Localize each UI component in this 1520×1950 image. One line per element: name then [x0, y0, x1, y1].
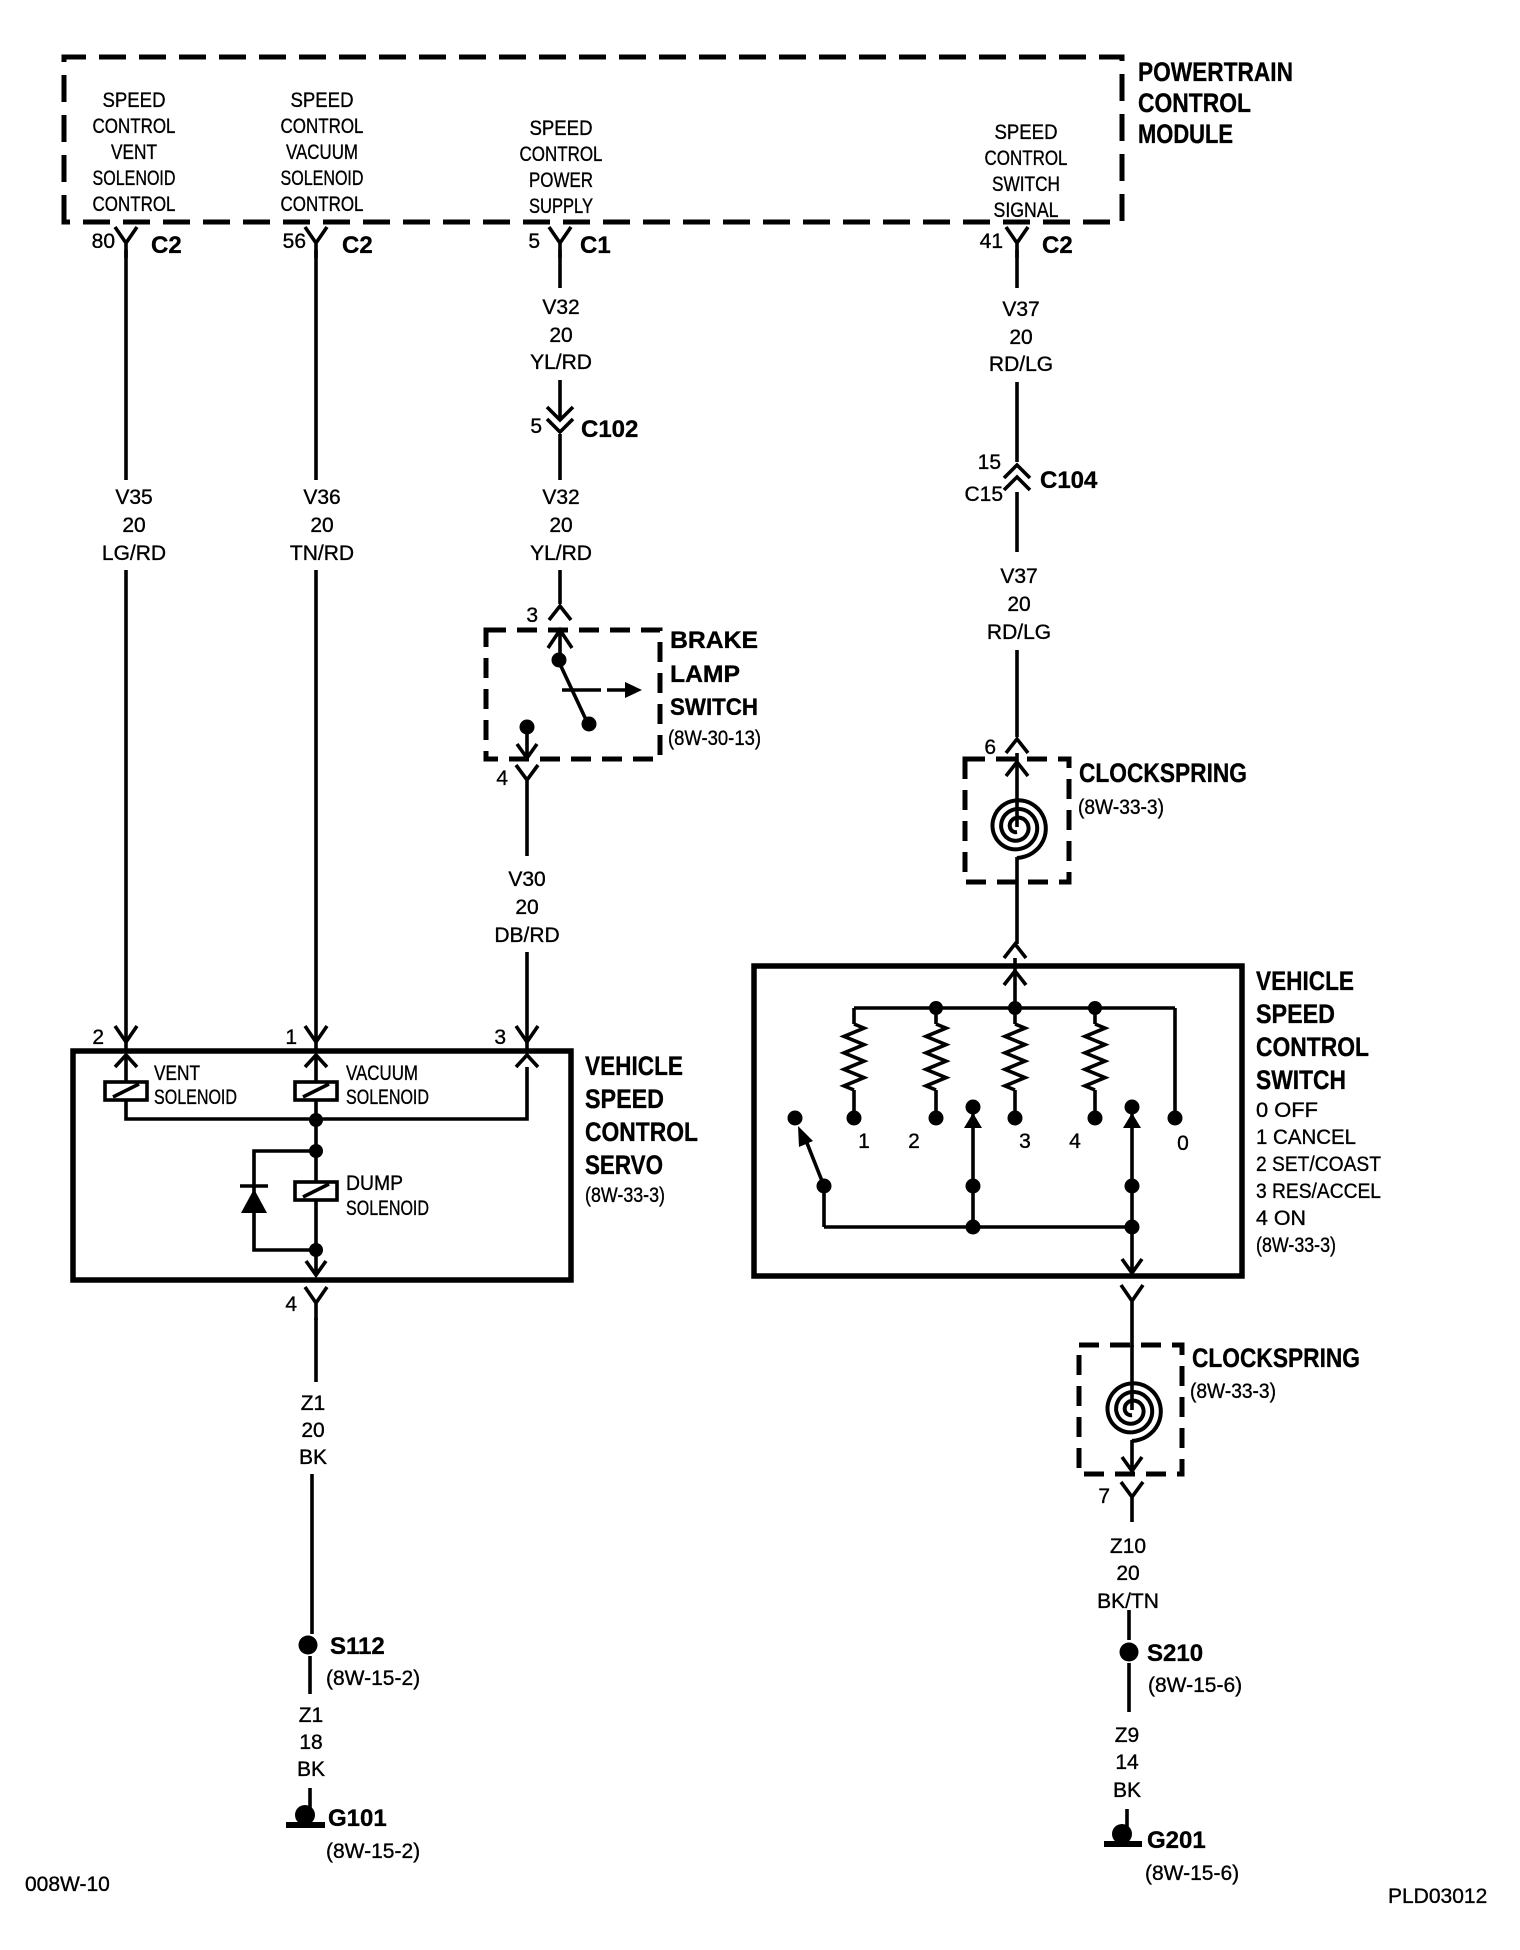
svg-text:(8W-30-13): (8W-30-13) — [668, 727, 761, 750]
wire V30 lower segment to servo pin 3 — [525, 952, 529, 1051]
svg-text:SPEED: SPEED — [585, 1084, 664, 1114]
svg-text:V32: V32 — [542, 486, 579, 509]
svg-text:4: 4 — [496, 767, 508, 790]
svg-text:3 RES/ACCEL: 3 RES/ACCEL — [1256, 1180, 1381, 1203]
switch output arrow — [1122, 1227, 1142, 1273]
svg-text:SUPPLY: SUPPLY — [529, 195, 593, 218]
diode D1 — [240, 1184, 268, 1188]
svg-text:5: 5 — [528, 230, 540, 253]
svg-text:4: 4 — [285, 1293, 297, 1316]
svg-text:VEHICLE: VEHICLE — [1256, 966, 1354, 996]
brake lamp switch output contact dot — [520, 720, 535, 735]
svg-text:41: 41 — [980, 230, 1003, 253]
svg-text:VENT: VENT — [111, 141, 157, 164]
wire label V32 20 YL/RD — [530, 296, 592, 374]
svg-text:DUMP: DUMP — [346, 1172, 403, 1195]
resistor R1 — [852, 1008, 856, 1024]
wire Z10 to splice S210 — [1127, 1610, 1131, 1640]
svg-text:20: 20 — [310, 514, 333, 537]
clockspring coil spiral — [993, 800, 1046, 858]
contact 1 dot — [847, 1111, 862, 1126]
svg-text:MODULE: MODULE — [1138, 119, 1233, 149]
svg-text:DB/RD: DB/RD — [494, 924, 559, 947]
svg-text:20: 20 — [549, 514, 572, 537]
svg-text:VACUUM: VACUUM — [286, 141, 358, 164]
svg-text:Z9: Z9 — [1115, 1724, 1140, 1747]
wire label V37 20 RD/LG second — [987, 565, 1051, 644]
svg-text:LG/RD: LG/RD — [102, 542, 166, 565]
svg-text:15: 15 — [978, 451, 1001, 474]
svg-text:BK: BK — [299, 1446, 327, 1469]
svg-text:20: 20 — [301, 1419, 324, 1442]
svg-text:POWER: POWER — [529, 169, 593, 192]
svg-text:CONTROL: CONTROL — [1256, 1032, 1369, 1062]
svg-text:VEHICLE: VEHICLE — [585, 1051, 683, 1081]
brake lamp switch output arrow to pin 4 — [517, 734, 537, 758]
wire V35 lower segment to servo pin 2 — [124, 570, 128, 1051]
svg-text:SOLENOID: SOLENOID — [281, 167, 364, 190]
wire segment to brake lamp switch pin 3 — [558, 570, 562, 604]
svg-text:20: 20 — [1116, 1562, 1139, 1585]
svg-text:0 OFF: 0 OFF — [1256, 1099, 1318, 1122]
svg-text:CONTROL: CONTROL — [281, 115, 364, 138]
wire V36 lower segment to servo pin 1 — [314, 570, 318, 1051]
wire label Z1 18 BK — [297, 1704, 325, 1781]
svg-text:6: 6 — [984, 736, 996, 759]
junction node bus at resistor 4 — [1088, 1001, 1102, 1015]
clockspring coil wire in — [1015, 753, 1019, 827]
wire V30 upper segment — [525, 800, 529, 856]
vehicle speed control servo box — [73, 1051, 571, 1280]
net label SPEED CONTROL VENT SOLENOID CONTROL — [93, 89, 176, 216]
svg-text:(8W-33-3): (8W-33-3) — [1078, 796, 1164, 819]
svg-text:2 SET/COAST: 2 SET/COAST — [1256, 1153, 1381, 1176]
svg-text:(8W-33-3): (8W-33-3) — [1190, 1380, 1276, 1403]
PCM label POWERTRAIN CONTROL MODULE — [1138, 57, 1293, 149]
switch blade with arrow — [805, 1138, 824, 1186]
wire label V36 20 TN/RD — [290, 486, 354, 565]
contact 0 wire from bus — [1173, 1008, 1177, 1112]
svg-text:CONTROL: CONTROL — [93, 115, 176, 138]
clockspring upper dashed box — [965, 759, 1069, 882]
svg-text:Z1: Z1 — [299, 1704, 324, 1727]
wire V36 upper segment — [314, 250, 318, 480]
svg-text:C2: C2 — [151, 232, 182, 259]
resistor R2 — [934, 1008, 938, 1024]
svg-text:CONTROL: CONTROL — [1138, 88, 1251, 118]
wire label V37 20 RD/LG — [989, 298, 1053, 376]
wire label V35 20 LG/RD — [102, 486, 166, 565]
wire S210 to Z9 label — [1127, 1663, 1131, 1712]
svg-text:Z1: Z1 — [301, 1392, 326, 1415]
svg-text:008W-10: 008W-10 — [25, 1873, 110, 1896]
svg-text:7: 7 — [1098, 1485, 1110, 1508]
wire label Z9 14 BK — [1113, 1724, 1141, 1802]
svg-text:CONTROL: CONTROL — [985, 147, 1068, 170]
svg-text:V30: V30 — [508, 868, 545, 891]
wire segment to C102 — [558, 380, 562, 418]
contact 4 dot — [1088, 1111, 1103, 1126]
svg-text:80: 80 — [92, 230, 115, 253]
vent solenoid coil symbol — [124, 1055, 128, 1082]
svg-text:C2: C2 — [1042, 232, 1073, 259]
net label SPEED CONTROL SWITCH SIGNAL — [985, 121, 1068, 222]
svg-text:(8W-15-6): (8W-15-6) — [1148, 1674, 1242, 1697]
svg-text:4 ON: 4 ON — [1256, 1207, 1306, 1230]
svg-text:56: 56 — [283, 230, 306, 253]
wire Z1 upper segment — [314, 1318, 318, 1382]
wire segment below C102 — [558, 434, 562, 480]
svg-text:C1: C1 — [580, 232, 611, 259]
svg-text:C15: C15 — [964, 483, 1003, 506]
svg-text:CONTROL: CONTROL — [520, 143, 603, 166]
svg-text:20: 20 — [122, 514, 145, 537]
wire label V32 20 YL/RD second — [530, 486, 592, 565]
svg-text:SPEED: SPEED — [530, 117, 593, 140]
blade to bottom bus wire — [822, 1186, 826, 1227]
VEHICLE SPEED CONTROL SERVO label — [585, 1051, 698, 1207]
svg-text:20: 20 — [1009, 326, 1032, 349]
svg-text:(8W-15-2): (8W-15-2) — [326, 1667, 420, 1690]
brake lamp switch blade end dot — [582, 717, 597, 732]
svg-text:BK/TN: BK/TN — [1097, 1590, 1159, 1613]
servo internal bus wire — [126, 1067, 527, 1119]
svg-text:(8W-33-3): (8W-33-3) — [1256, 1234, 1336, 1257]
clockspring coil wire out — [1015, 857, 1019, 944]
ground G201 — [1112, 1824, 1132, 1844]
svg-text:1 CANCEL: 1 CANCEL — [1256, 1126, 1356, 1149]
svg-text:RD/LG: RD/LG — [989, 353, 1053, 376]
wire to ground G101 — [308, 1788, 312, 1812]
switch common contact dot — [788, 1111, 803, 1126]
BRAKE LAMP SWITCH label — [668, 627, 761, 750]
junction node bus at resistor 2 — [929, 1001, 943, 1015]
splice S210 — [1120, 1643, 1139, 1662]
wire V37 segment from C2 pin 41 — [1015, 250, 1019, 288]
svg-text:CLOCKSPRING: CLOCKSPRING — [1079, 758, 1247, 788]
vehicle speed control switch box — [754, 966, 1242, 1276]
momentary contact arrow set/coast — [966, 1100, 981, 1115]
svg-text:C2: C2 — [342, 232, 373, 259]
svg-text:V32: V32 — [542, 296, 579, 319]
svg-text:Z10: Z10 — [1110, 1535, 1146, 1558]
svg-text:BRAKE: BRAKE — [670, 627, 758, 654]
svg-text:SOLENOID: SOLENOID — [154, 1086, 237, 1109]
svg-text:20: 20 — [1007, 593, 1030, 616]
wire label V30 20 DB/RD — [494, 868, 559, 947]
junction node dump branch top — [309, 1144, 323, 1158]
svg-text:S112: S112 — [330, 1633, 385, 1660]
brake lamp switch common contact dot — [552, 653, 567, 668]
svg-text:VACUUM: VACUUM — [346, 1062, 418, 1085]
wire label Z1 20 BK — [299, 1392, 327, 1469]
wire segment to clockspring pin 6 — [1015, 650, 1019, 737]
svg-text:V36: V36 — [303, 486, 340, 509]
clockspring input arrow — [1006, 762, 1028, 776]
wire Z1 to splice S112 — [310, 1474, 314, 1634]
svg-text:RD/LG: RD/LG — [987, 621, 1051, 644]
contact 0 dot — [1168, 1111, 1183, 1126]
brake lamp switch actuation arrow — [607, 688, 627, 692]
vacuum solenoid coil symbol — [314, 1055, 318, 1082]
net label SPEED CONTROL VACUUM SOLENOID CONTROL — [281, 89, 364, 216]
brake lamp switch actuation tick — [562, 688, 601, 692]
svg-text:(8W-15-2): (8W-15-2) — [326, 1840, 420, 1863]
svg-text:VENT: VENT — [154, 1062, 200, 1085]
svg-text:SIGNAL: SIGNAL — [994, 199, 1059, 222]
svg-text:SPEED: SPEED — [291, 89, 354, 112]
blade pivot dot — [817, 1179, 832, 1194]
svg-text:CLOCKSPRING: CLOCKSPRING — [1192, 1343, 1360, 1373]
svg-text:5: 5 — [530, 415, 542, 438]
svg-text:3: 3 — [526, 604, 538, 627]
resistor R4 — [1093, 1008, 1097, 1024]
svg-text:SWITCH: SWITCH — [670, 694, 758, 721]
wire to ground G201 — [1125, 1809, 1129, 1830]
switch top bus wire — [854, 1006, 1175, 1010]
switch bottom bus wire — [824, 1225, 1132, 1229]
svg-text:(8W-33-3): (8W-33-3) — [585, 1184, 665, 1207]
junction node on bus — [309, 1113, 323, 1127]
svg-text:1: 1 — [858, 1130, 870, 1153]
junction node bottom — [309, 1243, 323, 1257]
svg-text:20: 20 — [549, 324, 572, 347]
svg-text:(8W-15-6): (8W-15-6) — [1145, 1862, 1239, 1885]
contact 3 dot — [1008, 1111, 1023, 1126]
svg-text:SPEED: SPEED — [103, 89, 166, 112]
svg-text:YL/RD: YL/RD — [530, 351, 592, 374]
diode branch wire — [254, 1151, 316, 1250]
svg-text:18: 18 — [299, 1731, 322, 1754]
clockspring lower dashed box — [1079, 1345, 1182, 1474]
svg-text:LAMP: LAMP — [670, 661, 740, 688]
svg-text:SWITCH: SWITCH — [1256, 1065, 1346, 1095]
brake lamp switch internal input arrow — [548, 630, 572, 657]
momentary contact arrow res/accel — [1125, 1100, 1140, 1115]
svg-text:14: 14 — [1115, 1751, 1139, 1774]
resistor R3 — [1013, 1008, 1017, 1024]
VEHICLE SPEED CONTROL SWITCH label — [1256, 966, 1381, 1257]
servo output arrow at pin 4 — [306, 1250, 326, 1275]
svg-text:V37: V37 — [1002, 298, 1039, 321]
svg-text:CONTROL: CONTROL — [585, 1117, 698, 1147]
svg-text:YL/RD: YL/RD — [530, 542, 592, 565]
clockspring lower coil wire out with arrow — [1122, 1440, 1142, 1471]
powertrain control module PCM dashed box — [64, 57, 1122, 222]
switch output pin — [1121, 1285, 1143, 1347]
svg-text:2: 2 — [908, 1130, 920, 1153]
wire dump solenoid to pin 4 — [314, 1200, 318, 1250]
svg-text:20: 20 — [515, 896, 538, 919]
junction node bus at entry — [1008, 1001, 1022, 1015]
svg-text:BK: BK — [297, 1758, 325, 1781]
svg-text:1: 1 — [285, 1026, 297, 1049]
wire label Z10 20 BK/TN — [1097, 1535, 1159, 1613]
svg-text:BK: BK — [1113, 1779, 1141, 1802]
svg-text:0: 0 — [1177, 1132, 1189, 1155]
wire segment below C104 — [1015, 492, 1019, 552]
svg-text:CONTROL: CONTROL — [93, 193, 176, 216]
wire segment to C104 — [1015, 382, 1019, 462]
svg-text:4: 4 — [1069, 1130, 1081, 1153]
svg-text:S210: S210 — [1147, 1640, 1203, 1667]
clockspring lower coil spiral — [1108, 1383, 1161, 1441]
svg-text:3: 3 — [494, 1026, 506, 1049]
svg-text:SOLENOID: SOLENOID — [346, 1197, 429, 1220]
svg-text:V37: V37 — [1000, 565, 1037, 588]
svg-text:POWERTRAIN: POWERTRAIN — [1138, 57, 1293, 87]
svg-text:G201: G201 — [1147, 1827, 1206, 1854]
svg-text:3: 3 — [1019, 1130, 1031, 1153]
svg-text:SPEED: SPEED — [1256, 999, 1335, 1029]
svg-text:V35: V35 — [115, 486, 152, 509]
svg-text:TN/RD: TN/RD — [290, 542, 354, 565]
dump solenoid coil symbol — [314, 1151, 318, 1182]
wire S112 to Z1 18 label — [308, 1656, 312, 1694]
wire bus to dump branch — [314, 1120, 318, 1151]
svg-text:SWITCH: SWITCH — [992, 173, 1060, 196]
svg-text:SOLENOID: SOLENOID — [346, 1086, 429, 1109]
svg-text:SERVO: SERVO — [585, 1150, 663, 1180]
switch box entry chevrons — [1004, 944, 1026, 958]
svg-text:C104: C104 — [1040, 467, 1098, 494]
wire V35 upper segment — [124, 250, 128, 480]
svg-text:G101: G101 — [328, 1805, 387, 1832]
splice S112 — [299, 1636, 318, 1655]
svg-text:CONTROL: CONTROL — [281, 193, 364, 216]
svg-text:SPEED: SPEED — [995, 121, 1058, 144]
clockspring lower coil wire in — [1130, 1345, 1134, 1410]
svg-text:PLD03012: PLD03012 — [1388, 1885, 1487, 1908]
svg-text:SOLENOID: SOLENOID — [93, 167, 176, 190]
vacuum solenoid to bus wire — [314, 1100, 318, 1119]
wire V32 segment from C1 — [558, 250, 562, 288]
svg-text:C102: C102 — [581, 416, 638, 443]
ground G101 — [295, 1805, 315, 1825]
contact 2 dot — [929, 1111, 944, 1126]
net label SPEED CONTROL POWER SUPPLY — [520, 117, 603, 218]
brake lamp switch blade — [559, 662, 588, 724]
brake lamp switch dashed box — [486, 630, 660, 759]
svg-text:2: 2 — [92, 1026, 104, 1049]
